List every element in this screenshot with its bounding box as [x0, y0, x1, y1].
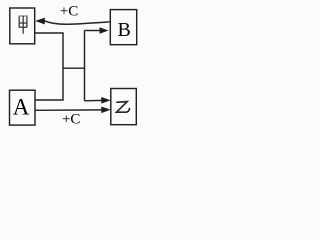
svg-text:+C: +C: [62, 111, 80, 127]
svg-text:B: B: [118, 19, 131, 41]
svg-text:A: A: [13, 94, 30, 119]
svg-text:+C: +C: [60, 4, 78, 20]
